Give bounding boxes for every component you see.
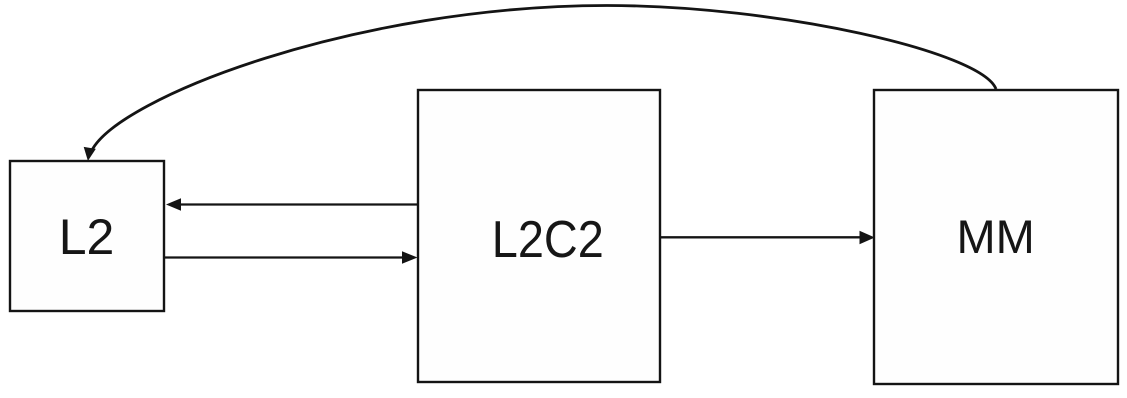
arrowhead into L2 top bbox=[84, 147, 96, 161]
block L2C2 bbox=[418, 90, 660, 382]
feedback curve MM to L2 bbox=[92, 6, 997, 152]
svg-text:L2: L2 bbox=[59, 209, 115, 265]
arrowhead into L2 bbox=[166, 198, 181, 210]
block MM bbox=[874, 90, 1118, 384]
block L2 bbox=[10, 161, 164, 311]
arrowhead into MM bbox=[860, 231, 875, 244]
wire L2C2 to L2 bbox=[180, 203, 418, 205]
wire L2 to L2C2 bbox=[164, 256, 403, 258]
arrowhead into L2C2 bbox=[402, 251, 418, 263]
svg-text:MM: MM bbox=[957, 210, 1035, 263]
wire L2C2 to MM bbox=[660, 236, 860, 238]
svg-text:L2C2: L2C2 bbox=[492, 211, 604, 269]
